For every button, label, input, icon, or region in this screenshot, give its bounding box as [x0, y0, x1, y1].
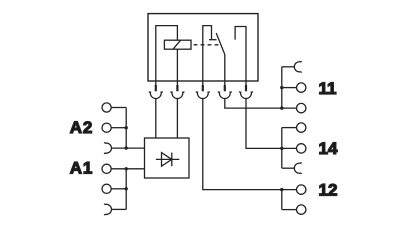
- plug pin 3: [196, 81, 209, 99]
- wire A2 to bus: [111, 127, 126, 129]
- terminal socket 11 top: [294, 61, 301, 73]
- terminal circle row1: [102, 103, 111, 112]
- wire coil bottom to pin2: [176, 49, 178, 81]
- bus A1 group: [125, 169, 127, 210]
- diode D1: [156, 153, 180, 167]
- plug pin 1: [149, 81, 162, 99]
- label 12: [319, 180, 338, 199]
- terminal circle 11 middle: [297, 83, 306, 92]
- label A2: [70, 118, 93, 137]
- plug pin 4: [218, 81, 231, 99]
- wire pin4 to terminal 11: [225, 98, 297, 108]
- plug pin 2: [171, 81, 184, 99]
- bracket group 11: [282, 67, 297, 108]
- plug pin 5: [239, 81, 252, 99]
- svg-text:14: 14: [319, 139, 338, 158]
- wire A1 through bus to diode module: [111, 168, 144, 170]
- terminal circle 14 middle: [297, 144, 306, 153]
- wire pin5 to terminal 14: [246, 98, 297, 148]
- dashed actuation link coil to contact: [194, 44, 221, 46]
- terminal circle 14 top: [297, 123, 306, 132]
- junction 11 middle: [280, 86, 283, 89]
- terminal socket 14 bottom: [294, 162, 301, 174]
- relay module outline box: [148, 14, 258, 81]
- label 11: [319, 79, 337, 98]
- wire row3 through bus to diode module: [111, 147, 144, 149]
- junction 12 top: [280, 188, 283, 191]
- NC contact tick: [209, 39, 217, 41]
- wire pin2 to diode module: [176, 98, 178, 138]
- label 14: [319, 139, 338, 158]
- wire pin3 to terminal 12: [203, 98, 297, 190]
- svg-text:A1: A1: [70, 158, 93, 177]
- svg-text:A2: A2: [70, 118, 93, 137]
- wire row6 to bus: [111, 208, 126, 210]
- svg-text:12: 12: [319, 180, 338, 199]
- junction A1 bus row4: [125, 167, 128, 170]
- junction 14 middle: [280, 147, 283, 150]
- diode module box: [145, 138, 190, 178]
- wire row1 to bus: [111, 107, 126, 109]
- terminal socket row6: [104, 204, 111, 216]
- NC contact wire pin3: [203, 26, 212, 81]
- wire row5 to bus: [111, 188, 126, 190]
- terminal circle A2: [102, 123, 111, 132]
- junction 11 bottom: [280, 106, 283, 109]
- terminal circle 12 top: [297, 185, 306, 194]
- bracket group 12: [282, 190, 297, 210]
- terminal circle 12 bottom: [297, 205, 306, 214]
- terminal socket row3: [104, 142, 111, 154]
- terminal circle 11 bottom: [297, 103, 306, 112]
- junction A2 bus row3: [125, 146, 128, 149]
- wire pin1 to diode module: [155, 98, 157, 138]
- NO contact wire pin5: [235, 27, 246, 82]
- svg-text:11: 11: [319, 79, 337, 98]
- label A1: [70, 158, 93, 177]
- terminal circle A1: [102, 164, 111, 173]
- relay coil K1: [164, 40, 191, 49]
- changeover blade common contact: [216, 33, 225, 81]
- bus A2 group: [125, 108, 127, 149]
- bracket group 14: [282, 128, 297, 169]
- terminal circle row5: [102, 184, 111, 193]
- coil loop wire pin1 to coil top: [156, 26, 178, 81]
- junction A2 bus row2: [125, 126, 128, 129]
- junction A1 bus row5: [125, 187, 128, 190]
